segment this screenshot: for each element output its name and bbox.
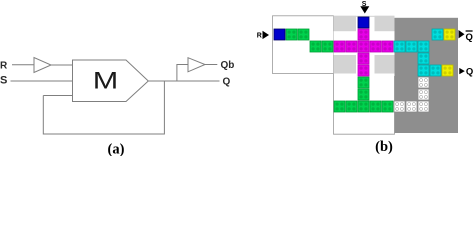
- svg-text:S: S: [0, 75, 7, 87]
- svg-text:Qb: Qb: [221, 60, 235, 71]
- svg-text:R: R: [257, 33, 262, 40]
- svg-text:(b): (b): [375, 139, 393, 155]
- svg-text:R: R: [0, 61, 8, 72]
- svg-text:Q: Q: [466, 32, 473, 43]
- svg-text:M: M: [93, 67, 119, 94]
- svg-text:Q: Q: [466, 67, 473, 78]
- svg-text:Q: Q: [223, 77, 231, 88]
- svg-text:(a): (a): [108, 142, 125, 157]
